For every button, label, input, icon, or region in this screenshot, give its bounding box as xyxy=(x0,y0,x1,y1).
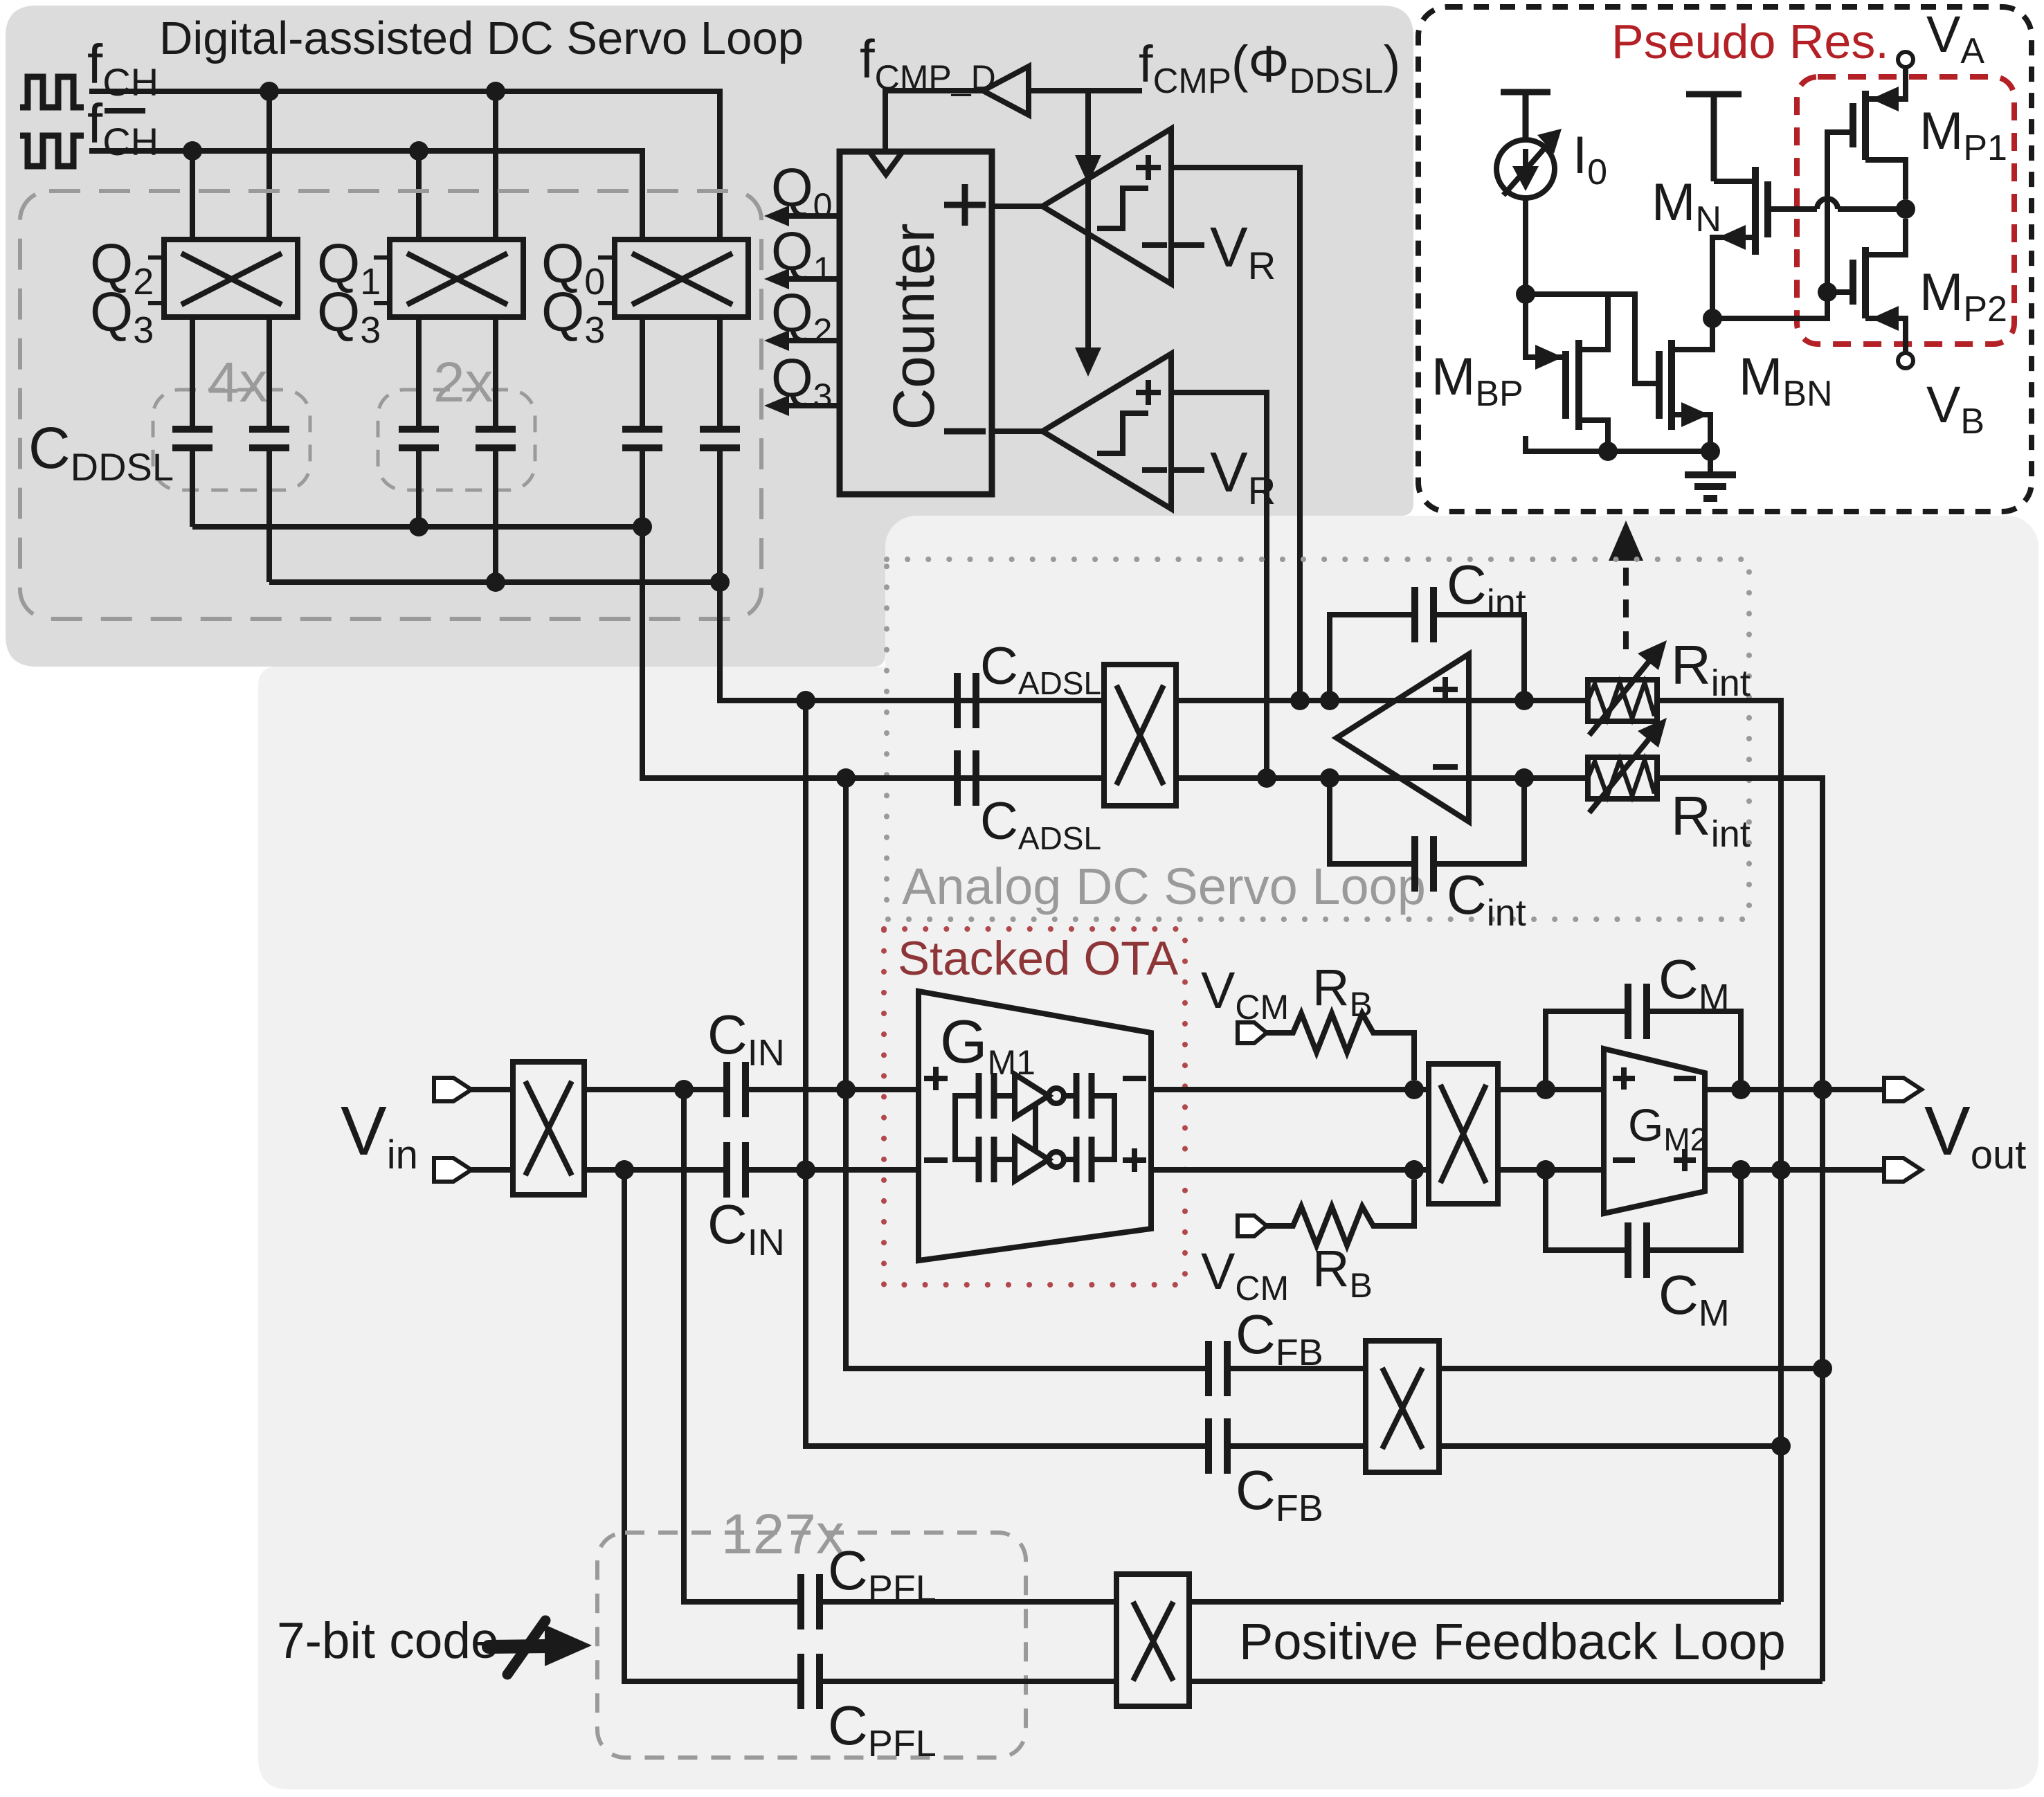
chopper ADSL xyxy=(1104,665,1176,806)
GM2 minus top-right mark xyxy=(1674,1076,1696,1081)
wire Rint bottom to output feedback xyxy=(1657,778,1823,1681)
wire chopper mid to GM2 top xyxy=(1498,1087,1604,1092)
wire CFB bottom to vertical A xyxy=(1439,1443,1781,1449)
wire fCMP drop with arrow to comparator1 xyxy=(1075,91,1101,184)
capacitor CM bottom loop xyxy=(1546,1170,1741,1250)
wire bias to MBN gate xyxy=(1526,294,1659,383)
arrow MBP gate xyxy=(1535,345,1563,370)
wire CIN top to GM1 xyxy=(745,1087,919,1092)
inverter fCMP buffer xyxy=(983,66,1029,115)
chopper PFL xyxy=(1116,1574,1189,1706)
arrow output Q2 xyxy=(764,282,840,351)
chopper DDSL 3 xyxy=(615,240,748,317)
svg-text:Positive Feedback Loop: Positive Feedback Loop xyxy=(1239,1613,1786,1670)
wire main top down to CFB top line xyxy=(846,1090,1209,1369)
dashed arrow to pseudo res xyxy=(1609,521,1643,649)
node comp2 feedback bottom xyxy=(1257,768,1276,788)
terminal Vin plus xyxy=(434,1078,471,1101)
comparator1 hysteresis glyph xyxy=(1097,188,1148,228)
comparator2 plus mark xyxy=(1136,380,1161,405)
terminal Vout plus xyxy=(1884,1078,1921,1101)
node MP gates xyxy=(1818,282,1837,302)
GM1 plus left mark xyxy=(924,1067,948,1090)
chopper DDSL 2 xyxy=(390,240,523,317)
wire cap2 to bus2 xyxy=(266,448,272,582)
wire inverter to counter clock xyxy=(885,91,983,152)
comparator2 hysteresis glyph xyxy=(1097,413,1148,453)
wire cap1 to bus1 xyxy=(190,448,195,527)
wire fCHbar line xyxy=(89,151,642,240)
node ADSL top to main xyxy=(796,691,815,710)
arrow output Q1 xyxy=(764,221,840,289)
pseudo res outer dashed box xyxy=(1418,7,2032,512)
wire bus2 xyxy=(269,579,720,585)
counter clock wedge xyxy=(869,152,903,174)
wire I0 to bias node xyxy=(1523,198,1528,294)
pin tick Q2 xyxy=(148,255,164,260)
resistor Rint bottom xyxy=(1588,732,1657,813)
counter minus input mark xyxy=(944,428,986,435)
node bias xyxy=(1516,285,1535,304)
node Vout top feedback xyxy=(1813,1080,1832,1099)
svg-text:4x: 4x xyxy=(208,351,268,414)
resistor RB bottom xyxy=(1267,1180,1414,1245)
wire ADSL bottom line left xyxy=(642,775,957,781)
node on fCHbar at x=605 xyxy=(409,141,428,161)
wire fCHbar drop to chopper2 xyxy=(416,151,422,240)
node CFB bottom right xyxy=(1771,1436,1791,1456)
wire chopper3 right to cap6 xyxy=(717,317,723,429)
current source I0 xyxy=(1496,140,1555,198)
wire chopper2 right to cap4 xyxy=(493,317,498,429)
wire cap6 down through bus2 to ADSL top xyxy=(720,448,1104,701)
capacitor CADSL bottom xyxy=(957,750,976,806)
wire CFB top to vertical B xyxy=(1439,1366,1823,1371)
capacitor CDDSL 1 xyxy=(172,429,212,448)
chopper input xyxy=(513,1062,584,1195)
supply rail 1 xyxy=(1501,92,1550,140)
transistor MBN xyxy=(1659,318,1712,451)
terminal VCM top xyxy=(1238,1022,1267,1043)
wire fCH drop to chopper1 xyxy=(266,91,272,240)
pin tick Q0 chopper3 xyxy=(598,255,615,260)
wire fCHbar drop to chopper1 xyxy=(190,151,195,240)
arrow MP1 source xyxy=(1871,87,1899,111)
chopper CFB xyxy=(1366,1341,1439,1472)
wire PFL top line right xyxy=(1189,1599,1781,1605)
wire CPFL bottom to chopper xyxy=(820,1679,1116,1684)
wire PFL bottom line right xyxy=(1189,1679,1823,1684)
OTA GM2 trapezoid xyxy=(1604,1049,1705,1213)
supply rail 2 xyxy=(1686,94,1742,181)
wire ADSL bottom cross to main top then CFB xyxy=(843,778,849,1090)
counter plus input mark xyxy=(944,184,986,226)
GM2 plus bottom-right mark xyxy=(1674,1149,1696,1171)
chopper mid xyxy=(1429,1064,1498,1204)
arrow MN source xyxy=(1718,225,1746,250)
integrator amp triangle xyxy=(1337,654,1469,822)
comparator1 minus mark xyxy=(1142,242,1167,248)
wire bus1 xyxy=(192,524,642,530)
capacitor CFB bottom xyxy=(1209,1418,1227,1474)
counter block xyxy=(840,152,992,494)
wire main bottom down to CFB bottom line xyxy=(806,1170,1209,1446)
wire MBN drain to MP gates xyxy=(1712,132,1853,318)
4x dashed group box xyxy=(153,390,310,490)
comparator2 minus mark xyxy=(1142,467,1167,473)
wire chopper to integrator bottom xyxy=(1176,775,1588,781)
wire ADSL top cap to chopper xyxy=(976,698,1104,703)
node Cint bottom left xyxy=(1320,768,1339,788)
pin tick Q3 chopper1 xyxy=(148,301,164,305)
2x dashed group box xyxy=(378,390,535,490)
GM1 minus right mark xyxy=(1123,1076,1146,1081)
svg-text:Stacked OTA: Stacked OTA xyxy=(898,932,1178,985)
node CFB top right xyxy=(1813,1359,1832,1378)
arrow output Q3 xyxy=(764,347,840,416)
analog servo dotted box xyxy=(887,559,1749,919)
node bus2 cap6 xyxy=(710,572,730,592)
wire ADSL top line left xyxy=(720,698,957,703)
pin tick Q3 chopper2 xyxy=(374,301,390,305)
transistor MBP xyxy=(1566,294,1608,451)
wire comparator1 plus input from feedback xyxy=(1171,168,1300,701)
pin tick Q3 chopper3 xyxy=(598,301,615,305)
wire GM1 out bottom xyxy=(1151,1167,1429,1173)
node Cint top left xyxy=(1320,691,1339,710)
svg-text:Pseudo Res.: Pseudo Res. xyxy=(1611,15,1889,69)
resistor Rint top xyxy=(1588,655,1657,735)
wire cap3 to bus1 xyxy=(416,448,422,527)
wire chopper1 right to cap2 xyxy=(266,317,272,429)
GM1 inner inverter link xyxy=(1033,1104,1038,1151)
wire GM1 out top xyxy=(1151,1087,1429,1092)
wire comparator1 minus to VR xyxy=(1171,242,1204,248)
node ADSL return bottom xyxy=(796,1160,815,1180)
node ground rail left xyxy=(1598,442,1618,461)
svg-text:2x: 2x xyxy=(433,351,494,414)
svg-text:Counter: Counter xyxy=(881,224,946,431)
arrow 7-bit code bus xyxy=(489,1620,592,1674)
comparator 1 xyxy=(1042,129,1171,284)
wire CPFL top to chopper xyxy=(820,1599,1116,1605)
wire GM2 out bottom xyxy=(1705,1167,1884,1173)
node CM top left xyxy=(1536,1080,1555,1099)
transistor MP2 xyxy=(1853,219,1906,353)
wire chopper2 left to cap3 xyxy=(416,317,422,429)
wire MN gate hop to MP node xyxy=(1817,199,1906,209)
wire ADSL top cross to main bottom xyxy=(803,701,808,1170)
capacitor CM top loop xyxy=(1546,1011,1741,1090)
terminal Vin minus xyxy=(434,1158,471,1182)
ground rail wire xyxy=(1526,436,1710,451)
transistor MP1 xyxy=(1853,67,1906,199)
capacitor CDDSL 5 xyxy=(622,429,662,448)
capacitor Cint bottom loop xyxy=(1330,778,1524,864)
node CM bottom left xyxy=(1536,1160,1555,1180)
wire comparator2 minus to VR xyxy=(1171,467,1204,473)
transistor MN xyxy=(1712,167,1817,318)
wire chopper to integrator top xyxy=(1176,698,1588,703)
capacitor CIN top xyxy=(727,1062,745,1117)
node PFL tap top xyxy=(674,1080,694,1099)
wire MP2 gate stub xyxy=(1827,289,1853,295)
wire PFL tap bottom down xyxy=(624,1170,801,1681)
ground symbol xyxy=(1685,451,1736,498)
capacitor CDDSL 4 xyxy=(476,429,516,448)
capacitor CPFL top xyxy=(801,1574,820,1629)
clock waveform fCHbar xyxy=(20,136,84,166)
wire fCH line xyxy=(89,91,720,240)
node RB top xyxy=(1404,1080,1424,1099)
capacitor CIN bottom xyxy=(727,1142,745,1198)
integrator minus mark xyxy=(1433,764,1458,770)
node bus1 cap5 xyxy=(633,517,652,536)
comparator1 plus mark xyxy=(1136,155,1161,180)
node MP mid xyxy=(1896,199,1915,219)
comparator 2 xyxy=(1042,354,1171,509)
wire CFB bottom cap to chopper xyxy=(1227,1443,1366,1449)
capacitor CDDSL 6 xyxy=(700,429,740,448)
node on fCHbar at x=278 xyxy=(183,141,202,161)
capacitor CDDSL 3 xyxy=(399,429,439,448)
wire fCMP to inverter xyxy=(1029,88,1142,93)
node comp1 feedback top xyxy=(1290,691,1310,710)
wire ADSL bottom cap to chopper xyxy=(976,775,1104,781)
node bus1 cap3 xyxy=(409,517,428,536)
wire chopper mid to GM2 bottom xyxy=(1498,1167,1604,1173)
clock waveform fCH xyxy=(20,77,84,107)
node ground rail right xyxy=(1701,442,1720,461)
wire chopper3 left to cap5 xyxy=(640,317,645,429)
arrow MBN source xyxy=(1681,402,1709,427)
stacked OTA dotted box xyxy=(884,929,1185,1285)
wire Vin plus to chopper xyxy=(471,1087,513,1092)
node ADSL bottom to main xyxy=(836,768,856,788)
pin tick Q1 xyxy=(374,255,390,260)
wire chopper to CIN top xyxy=(584,1087,727,1092)
wire Rint top to output feedback xyxy=(1657,701,1781,1602)
wire CFB top cap to chopper xyxy=(1227,1366,1366,1371)
node on fCH at x=389 xyxy=(260,82,279,101)
node Cint top right xyxy=(1514,691,1534,710)
terminal VB xyxy=(1898,353,1913,368)
capacitor Cint top loop xyxy=(1330,615,1524,701)
resistor RB top xyxy=(1267,1013,1414,1080)
wire comparator2 plus input from feedback xyxy=(1171,392,1267,778)
node PFL tap bottom xyxy=(615,1160,634,1180)
capacitor CADSL top xyxy=(957,673,976,728)
DDSL dashed boundary box xyxy=(20,191,761,619)
node Cint bottom right xyxy=(1514,768,1534,788)
background main analog panel xyxy=(258,511,2038,1789)
terminal VA xyxy=(1898,52,1913,67)
GM2 plus top-left mark xyxy=(1613,1067,1635,1090)
GM1 inner lower branch xyxy=(955,1128,1114,1181)
svg-text:7-bit code: 7-bit code xyxy=(277,1613,499,1669)
GM2 minus bottom-left mark xyxy=(1613,1157,1635,1163)
svg-text:Digital-assisted DC Servo Loop: Digital-assisted DC Servo Loop xyxy=(159,12,804,64)
wire bias down to MBP gate xyxy=(1526,294,1566,357)
OTA GM1 trapezoid xyxy=(919,991,1151,1261)
127x dashed box xyxy=(597,1533,1026,1758)
wire counter plus to comparator1 xyxy=(992,204,1042,209)
wire PFL tap top down xyxy=(684,1090,801,1602)
capacitor CDDSL 2 xyxy=(249,429,289,448)
GM1 inner upper branch xyxy=(955,1074,1114,1128)
wire GM2 out top xyxy=(1705,1087,1884,1092)
pseudo res red dashed box xyxy=(1797,77,2014,344)
wire cap4 to bus2 xyxy=(493,448,498,582)
arrow MP2 source xyxy=(1871,306,1899,331)
background digital DC servo loop panel xyxy=(6,6,1413,667)
capacitor CFB top xyxy=(1209,1341,1227,1396)
wire counter minus to comparator2 xyxy=(992,428,1042,434)
node CM top right xyxy=(1731,1080,1751,1099)
node RB bottom xyxy=(1404,1160,1424,1180)
terminal VCM bottom xyxy=(1238,1216,1267,1236)
arrow output Q0 xyxy=(764,157,840,226)
wire fCH drop to chopper2 xyxy=(493,91,498,240)
wire Vin minus to chopper xyxy=(471,1167,513,1173)
wire fCMP drop with arrow to comparator2 xyxy=(1075,180,1101,377)
wire cap5 down through bus1 to ADSL bottom xyxy=(642,448,1104,778)
wire chopper to CIN bottom xyxy=(584,1167,727,1173)
terminal Vout minus xyxy=(1884,1158,1921,1182)
chopper DDSL 1 xyxy=(164,240,298,317)
node MBN drain tap xyxy=(1703,309,1722,328)
GM1 plus right mark xyxy=(1123,1148,1146,1172)
node bus2 cap4 xyxy=(486,572,505,592)
node Vout bottom feedback xyxy=(1771,1160,1791,1180)
wire chopper1 left to cap1 xyxy=(190,317,195,429)
svg-text:127x: 127x xyxy=(721,1503,844,1566)
wire CIN bottom to GM1 xyxy=(745,1167,919,1173)
integrator plus mark xyxy=(1433,677,1458,702)
node on fCH at x=716 xyxy=(486,82,505,101)
node CM bottom right xyxy=(1731,1160,1751,1180)
capacitor CPFL bottom xyxy=(801,1654,820,1709)
node ADSL return top xyxy=(836,1080,856,1099)
GM1 minus left mark xyxy=(924,1157,948,1163)
